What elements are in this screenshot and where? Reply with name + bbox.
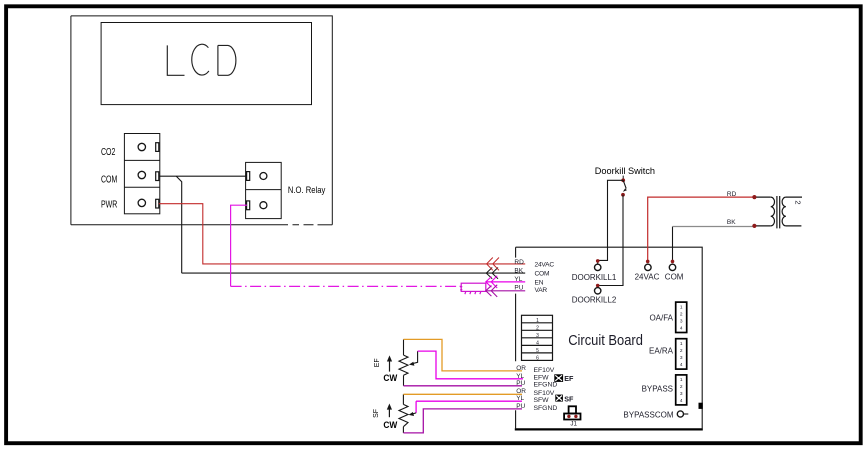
wire switch to DOORKILL1 [598,180,624,264]
svg-text:SF: SF [564,395,574,404]
terminal circle DOORKILL1 [595,264,601,270]
svg-text:BYPASSCOM: BYPASSCOM [623,410,673,419]
trimpot icon EF [554,374,563,382]
switch leader tick [622,176,624,179]
header EA/RA [676,339,687,369]
pot SF wiper [411,413,416,414]
svg-text:24VAC: 24VAC [635,273,660,282]
junction dot DOORKILL2 [596,284,600,288]
svg-text:3: 3 [680,355,683,361]
circuit board bottom edge thick [515,428,703,430]
terminal circle CO2 [138,143,145,150]
svg-text:SFW: SFW [534,397,550,404]
pot SF top lead [402,394,404,404]
svg-text:EFGND: EFGND [534,382,558,389]
wire relay magenta down [231,205,247,286]
wire PU SFGND [403,409,522,433]
svg-text:COM: COM [535,271,550,278]
switch contact dot bottom [621,193,625,197]
wire BK horizontal to board [182,272,526,274]
junction dot 24VAC [646,260,650,264]
chevron splice YL [486,276,497,288]
svg-text:EN: EN [535,279,544,286]
jumper J1 cap [569,406,576,413]
LCD display rectangle [101,23,311,105]
terminal circle PWR [138,199,145,206]
svg-text:1: 1 [680,341,683,347]
svg-text:EA/RA: EA/RA [649,346,674,355]
wire COM black vertical [672,227,674,262]
CW arrow EF [389,360,391,372]
svg-text:DOORKILL2: DOORKILL2 [572,296,617,305]
wire PWR red [159,204,525,264]
svg-text:YL: YL [516,395,524,402]
svg-text:5: 5 [536,348,539,354]
wire 24VAC red to transformer [648,197,755,261]
pot EF top lead [403,339,405,355]
pot SF wiper arrowhead [409,412,415,416]
wire OR SF10V [403,393,522,395]
svg-text:2: 2 [680,384,683,390]
svg-text:YL: YL [516,373,524,380]
svg-text:3: 3 [536,333,539,339]
transformer T1 [754,196,802,228]
strip pin numbers [536,318,539,362]
svg-text:CW: CW [383,419,397,430]
svg-text:SF: SF [373,409,380,418]
terminal circle COM [669,264,675,270]
trimpot icon SF [555,395,563,402]
svg-text:CO2: CO2 [101,146,116,158]
svg-text:2: 2 [536,325,539,331]
svg-text:Doorkill Switch: Doorkill Switch [595,166,655,176]
wire YL EFW [418,351,523,379]
svg-text:BYPASS: BYPASS [642,384,673,393]
relay circle bottom [260,202,267,209]
svg-text:2: 2 [680,311,683,317]
wire switch to DOORKILL2 [598,195,623,287]
svg-text:DOORKILL1: DOORKILL1 [572,273,617,282]
chevron splice PU [486,285,497,297]
wire YL out of cable [486,281,525,283]
chevron splice BK [486,268,498,279]
J1 pin dot left [567,415,570,418]
transformer dot top [752,195,756,199]
svg-text:RD: RD [514,259,524,266]
svg-text:3: 3 [680,391,683,397]
terminal circle COM [138,171,145,178]
pin CO2 [156,143,159,152]
transformer dot bottom [752,224,756,228]
relay pin bottom [247,201,250,210]
svg-text:RD: RD [727,191,737,198]
potentiometer EF zigzag [399,355,408,375]
pin PWR [156,199,159,208]
junction dot DOORKILL1 [596,259,600,263]
svg-text:YL: YL [514,276,522,283]
svg-text:Circuit Board: Circuit Board [568,332,643,348]
svg-text:PU: PU [514,285,523,292]
svg-text:4: 4 [680,398,683,404]
svg-text:4: 4 [680,325,683,331]
svg-text:6: 6 [536,356,539,362]
pot SF bottom lead [402,427,404,433]
terminal circle 24VAC [645,264,651,270]
pin COM [156,172,159,181]
LCD stroke-font text [167,44,236,75]
LCD terminal block (CO2/COM/PWR) [124,134,159,214]
svg-text:2: 2 [680,348,683,354]
terminal circle DOORKILL2 [595,288,601,294]
header OA/FA [676,302,687,332]
svg-text:OA/FA: OA/FA [649,314,673,323]
svg-text:EF: EF [374,358,381,367]
pot SF wiper lead magenta [415,401,417,413]
svg-text:4: 4 [536,341,539,347]
pot EF wiper arrowhead [409,362,415,366]
svg-text:1: 1 [680,304,683,310]
pot EF wiper [412,351,418,364]
switch blade [623,180,626,188]
svg-text:COM: COM [665,273,684,282]
J1 pin dot right [574,415,577,418]
svg-text:1: 1 [680,377,683,383]
wire magenta dash-dot run [231,285,462,287]
terminal strip 6-pos [522,315,553,360]
wire COM black to relay [159,175,247,177]
switch blade arrowhead [623,188,627,191]
wire PU out of cable [486,290,525,292]
svg-text:PWR: PWR [101,198,117,210]
circuit board outline [516,247,703,428]
svg-text:OR: OR [516,365,526,372]
svg-text:4: 4 [680,362,683,368]
BYPASSCOM stub [684,413,689,415]
svg-text:PU: PU [516,403,525,410]
svg-text:COM: COM [101,173,117,185]
junction dot COM [671,260,675,264]
LCD unit enclosure box [71,16,332,225]
potentiometer SF zigzag [399,404,408,426]
svg-text:24VAC: 24VAC [535,261,555,268]
relay circle top [260,173,267,180]
svg-text:2: 2 [794,200,803,204]
svg-text:3: 3 [680,318,683,324]
svg-text:PU: PU [516,380,525,387]
edge notch [699,403,703,409]
svg-text:BK: BK [727,219,736,226]
relay pin top [247,172,250,181]
header BYPASS [676,375,687,405]
svg-text:EF10V: EF10V [534,367,555,374]
wire COM branch diagonal + vertical down [176,176,181,273]
svg-text:CW: CW [383,373,397,384]
wire PU EFGND [404,385,523,387]
svg-text:J1: J1 [570,421,577,428]
pot EF bottom lead [403,375,405,386]
wire YL SFW [416,400,522,402]
CW arrow SF [388,408,390,417]
svg-text:1: 1 [536,318,539,324]
N.O. relay block [246,162,282,218]
chevron splice RD [487,258,499,271]
svg-text:SFGND: SFGND [534,405,558,412]
svg-text:OR: OR [516,388,526,395]
svg-text:BK: BK [514,268,523,275]
cable sheath symbol [460,283,486,294]
wire OR EF10V [404,339,523,371]
jumper J1 body [564,414,580,420]
wire COM gray to transformer [673,226,755,228]
svg-text:SF10V: SF10V [534,390,555,397]
svg-text:VAR: VAR [535,287,548,294]
svg-text:EFW: EFW [534,375,550,382]
svg-text:EF: EF [564,374,574,383]
terminal circle BYPASSCOM [677,411,683,417]
svg-text:N.O. Relay: N.O. Relay [288,185,326,196]
switch contact dot top [621,178,625,182]
